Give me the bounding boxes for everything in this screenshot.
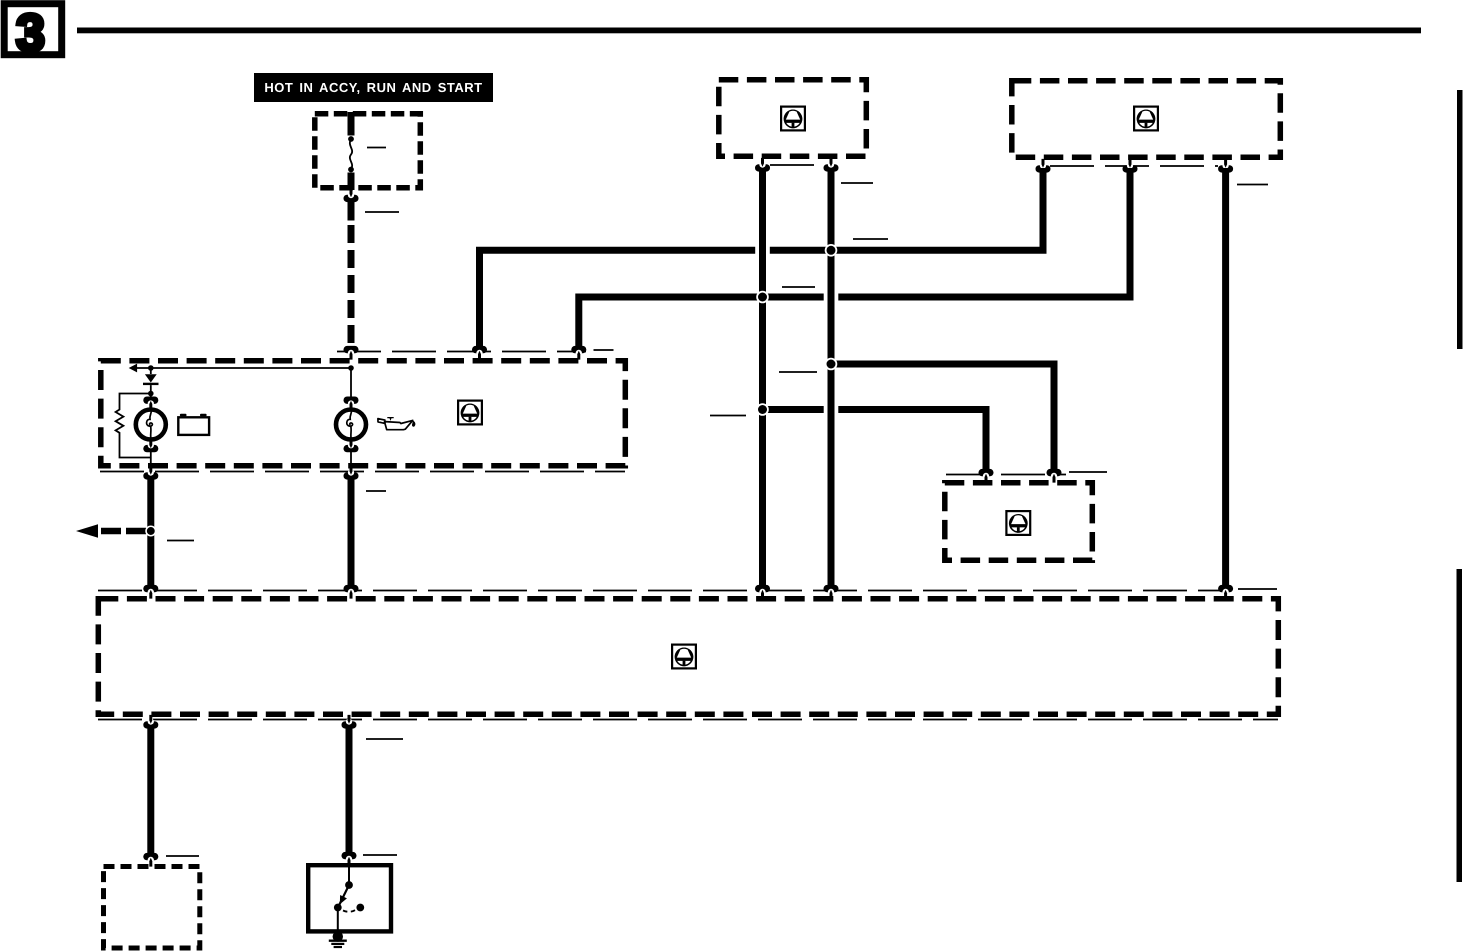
switch contacts xyxy=(334,867,364,933)
label line right wire bottom xyxy=(363,854,397,856)
cluster box A (top, with steering icon) xyxy=(719,80,867,157)
connector small box pin 1 xyxy=(979,469,994,483)
crossing halo box A pin1 over wire1 xyxy=(755,246,770,254)
connector instrument top pin fuse xyxy=(344,346,359,360)
connector rail above instrument box xyxy=(337,351,586,353)
fuse box (dashed) xyxy=(315,114,421,188)
steering icon small box xyxy=(1006,511,1030,535)
crossing halo box A pin2 over wire2 xyxy=(824,293,839,301)
connector instrument top pin wire1 xyxy=(472,346,487,360)
top horizontal rule xyxy=(77,28,1421,34)
wire from box B pin2 left to instrument cluster xyxy=(579,168,1130,347)
cluster box B (top right, with steering icon) xyxy=(1012,81,1281,158)
connector rail above small box xyxy=(946,474,1066,476)
steering icon main box xyxy=(672,645,696,669)
connector box B pin 1 xyxy=(1036,159,1051,173)
steering icon instrument box xyxy=(458,401,482,425)
bulb 2 (oil pressure indicator) xyxy=(336,410,366,440)
connector rail below instrument box xyxy=(100,471,625,473)
connector rail below box B xyxy=(1050,165,1218,167)
switch box xyxy=(308,865,391,931)
label line left wire bottom xyxy=(166,855,199,857)
label line xyxy=(779,371,817,373)
connector instrument bottom pin 2 xyxy=(344,466,359,480)
junction small-box wire / box A pin2 xyxy=(825,358,838,371)
bulb 2 connector top xyxy=(344,397,359,410)
diode xyxy=(143,368,159,396)
wire fuse feed dashed segment xyxy=(348,225,355,343)
label banner HOT IN ACCY, RUN AND START xyxy=(254,73,493,102)
connector above switch box xyxy=(342,852,357,866)
connector box B pin 2 xyxy=(1123,159,1138,173)
connector main box top pin c xyxy=(755,585,770,599)
bulb 1 connector bottom xyxy=(143,440,158,468)
junction wire1 / box A pin2 xyxy=(825,244,838,257)
connector instrument top pin wire2 xyxy=(571,346,586,360)
label line fuse xyxy=(367,147,386,149)
steering icon box A xyxy=(781,107,805,131)
label line xyxy=(710,415,746,417)
connector small box pin 2 xyxy=(1047,469,1062,483)
connector main box top pin b xyxy=(344,585,359,599)
main body harness box (dashed) xyxy=(98,599,1278,715)
connector rail below main box xyxy=(98,719,1278,721)
label line right of instrument top pin xyxy=(594,349,614,351)
label line right of arrow junction xyxy=(167,540,194,542)
label line right of small box pin2 xyxy=(1069,471,1107,473)
connector box A pin 2 xyxy=(824,158,839,172)
label line right of box B pins xyxy=(1237,184,1268,186)
label line below instrument pin2 xyxy=(366,490,386,492)
connector main box bottom pin 2 xyxy=(342,715,357,729)
wire from box B pin1 left to instrument cluster xyxy=(480,168,1044,347)
crossing halo box A pin2 over wire to small box xyxy=(824,406,839,414)
svg-text:3: 3 xyxy=(16,5,45,63)
right margin bar lower xyxy=(1457,569,1463,882)
wire box A pin2 down to main box xyxy=(828,168,835,586)
label line below main box pin2 xyxy=(366,738,403,740)
right margin bar upper xyxy=(1457,90,1463,349)
bulb 1 connector top xyxy=(143,394,158,410)
wire main box pin2 down xyxy=(346,727,353,853)
bottom-left component box (dashed) xyxy=(104,867,200,949)
connector main box bottom pin 1 xyxy=(143,715,158,729)
wire main box pin1 down xyxy=(147,727,154,854)
connector main box top pin e xyxy=(1218,585,1233,599)
connector main box top pin d xyxy=(824,585,839,599)
label line above wire xyxy=(853,238,888,240)
wire box A pin1 down to main box xyxy=(759,168,766,586)
oil can icon xyxy=(378,417,416,430)
steering icon box B xyxy=(1134,107,1158,131)
bulb 1 (charge indicator) xyxy=(136,410,166,440)
internal feed wire with arrow xyxy=(129,364,354,373)
wire fuse feed solid segment xyxy=(348,200,355,221)
label line right of box A pins xyxy=(841,182,873,184)
ground xyxy=(329,931,347,947)
fuse element xyxy=(348,136,354,190)
connector main box top pin a xyxy=(143,585,158,599)
junction small-box wire / box A pin1 xyxy=(756,403,769,416)
small relay box (dashed) xyxy=(945,483,1093,561)
connector box A pin 1 xyxy=(755,158,770,172)
junction arrow / wire pin1 xyxy=(145,525,156,536)
label line at wire 2 xyxy=(782,286,815,288)
wire box B pin3 down to main box xyxy=(1222,168,1229,586)
wire instrument pin1 down to main box xyxy=(147,478,154,586)
fuse feed wire xyxy=(348,112,355,136)
connector rail below box A xyxy=(770,164,824,166)
connector box B pin 3 xyxy=(1218,159,1233,173)
connector rail above main box xyxy=(98,590,1232,592)
connector instrument bottom pin 1 xyxy=(143,466,158,480)
shunt resistor xyxy=(116,394,151,458)
label line right end of main box rail xyxy=(1238,588,1277,590)
wire to small box pin1 xyxy=(763,410,987,472)
junction wire2 / box A pin1 xyxy=(756,291,769,304)
dashed arrow to left xyxy=(76,524,146,537)
svg-text:HOT IN ACCY, RUN AND START: HOT IN ACCY, RUN AND START xyxy=(264,80,482,95)
bulb 2 connector bottom xyxy=(344,440,359,468)
page frame box "3" xyxy=(4,4,62,63)
battery icon xyxy=(178,414,209,435)
wire instrument pin2 down to main box xyxy=(348,478,355,586)
wire to small box pin2 xyxy=(831,364,1054,471)
connector above bottom-left box xyxy=(143,853,158,867)
connector below fuse box xyxy=(344,188,359,202)
label line below fuse connector xyxy=(365,211,399,213)
instrument cluster box (dashed) xyxy=(101,361,626,466)
bulb 2 wire from tee xyxy=(350,368,352,398)
